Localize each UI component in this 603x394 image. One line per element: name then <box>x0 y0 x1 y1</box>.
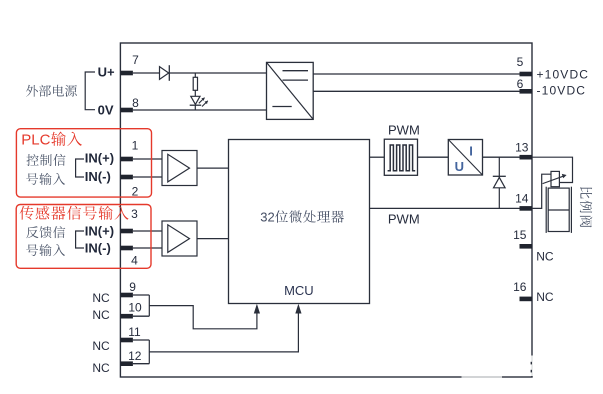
svg-text:U+: U+ <box>98 65 115 80</box>
svg-text:NC: NC <box>536 250 554 264</box>
svg-text:16: 16 <box>513 280 527 294</box>
svg-text:IN(-): IN(-) <box>85 241 111 256</box>
svg-text:IN(-): IN(-) <box>85 169 111 184</box>
svg-text:PLC: PLC <box>21 132 50 149</box>
svg-text:+10VDC: +10VDC <box>537 67 590 81</box>
svg-text:U: U <box>455 159 464 174</box>
svg-text:1: 1 <box>132 139 139 153</box>
svg-text:NC: NC <box>92 308 110 322</box>
svg-text:-10VDC: -10VDC <box>537 84 587 98</box>
svg-text:11: 11 <box>128 325 141 339</box>
svg-text:9: 9 <box>129 280 136 294</box>
svg-text:NC: NC <box>92 291 110 305</box>
svg-text:3: 3 <box>131 207 138 221</box>
svg-text:2: 2 <box>132 185 139 199</box>
svg-text:7: 7 <box>132 53 139 67</box>
svg-text:NC: NC <box>536 290 554 304</box>
svg-text:8: 8 <box>132 96 139 110</box>
svg-text:4: 4 <box>131 253 138 267</box>
svg-text:13: 13 <box>515 140 529 154</box>
svg-text:I: I <box>469 143 473 158</box>
svg-text:15: 15 <box>513 228 527 242</box>
svg-text:32: 32 <box>260 210 274 225</box>
svg-text:10: 10 <box>128 301 142 315</box>
svg-text:PWM: PWM <box>388 123 420 138</box>
svg-text:IN(+): IN(+) <box>85 224 114 239</box>
svg-text:PWM: PWM <box>388 212 420 227</box>
svg-text:5: 5 <box>517 55 524 69</box>
svg-text:MCU: MCU <box>284 283 314 298</box>
svg-text:NC: NC <box>92 361 110 375</box>
svg-text:IN(+): IN(+) <box>85 151 114 166</box>
svg-text:0V: 0V <box>98 102 114 117</box>
svg-text:NC: NC <box>92 339 110 353</box>
svg-text:6: 6 <box>517 77 524 91</box>
svg-text:14: 14 <box>515 192 529 206</box>
svg-text:12: 12 <box>128 349 142 363</box>
